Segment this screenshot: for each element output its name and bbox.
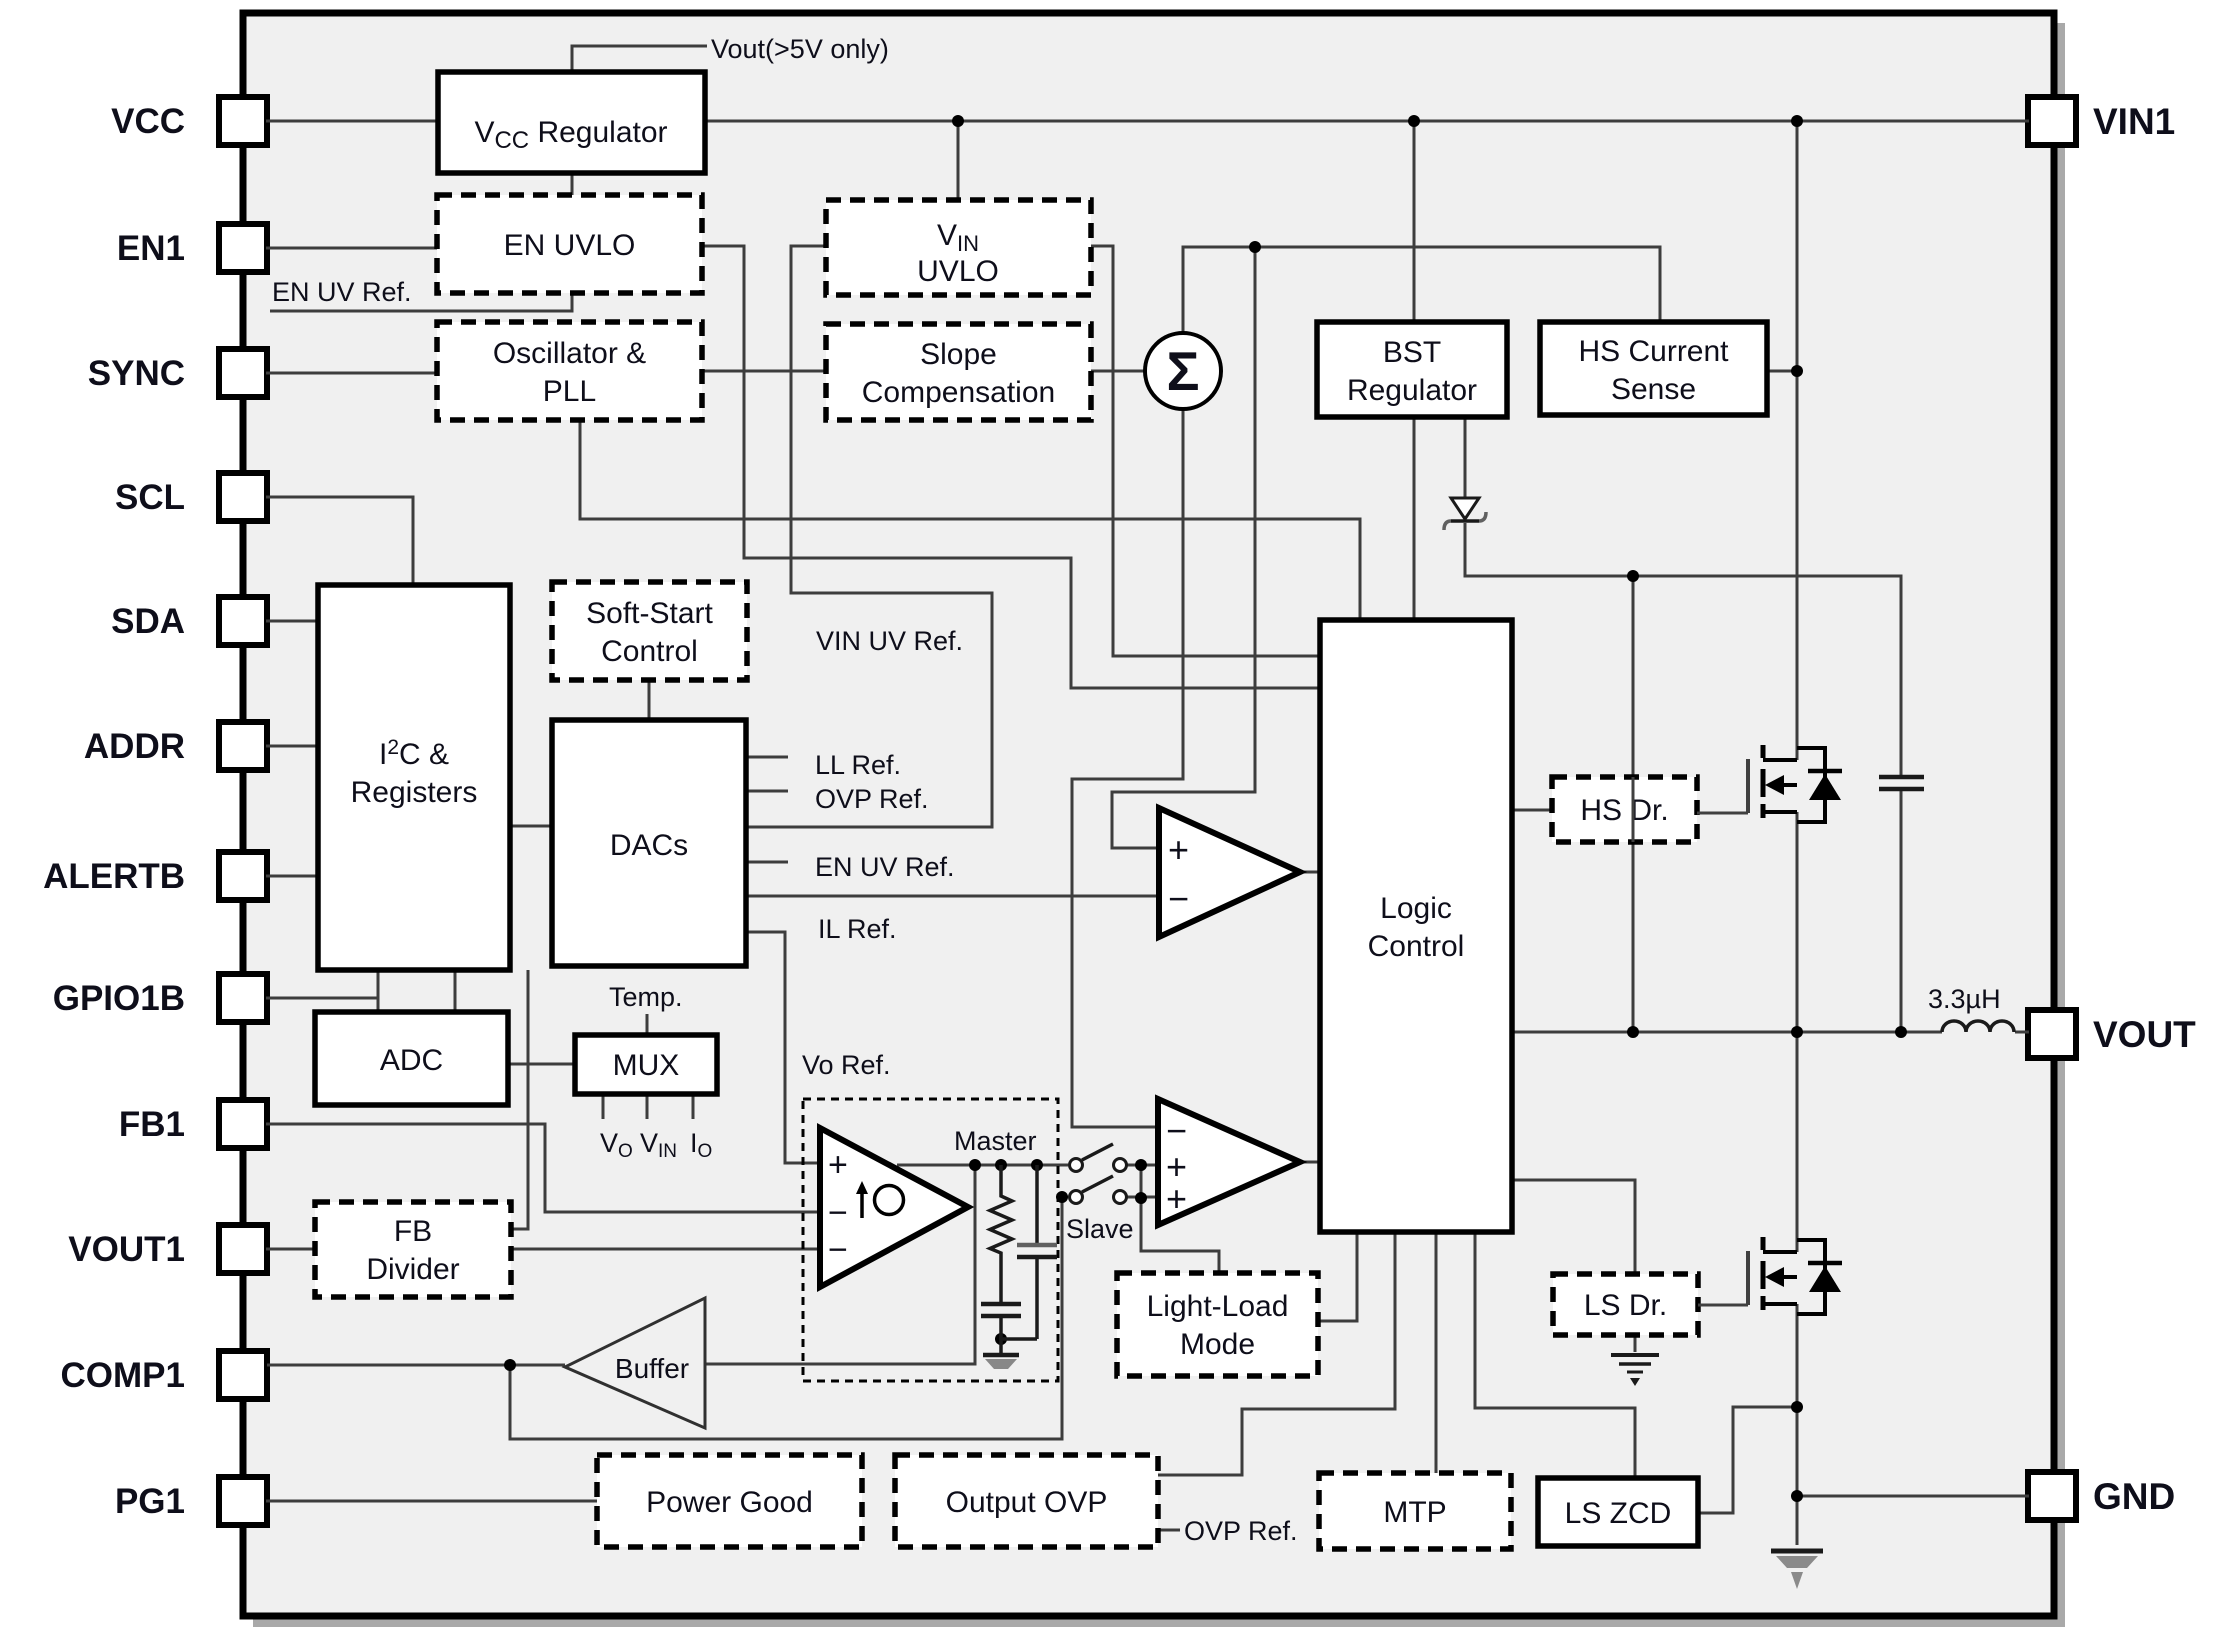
wire EN UVLO output to Logic Control bbox=[702, 246, 1320, 688]
stub EN UV Ref. bbox=[746, 861, 788, 864]
pin ALERTB bbox=[219, 852, 267, 900]
wire EN UV Ref. into EN UVLO bbox=[270, 293, 572, 311]
wire Logic to Light-Load Mode bbox=[1318, 1232, 1357, 1321]
ground for compensation network bbox=[999, 1339, 1003, 1353]
svg-text:Slope: Slope bbox=[920, 338, 997, 371]
svg-text:SDA: SDA bbox=[111, 602, 185, 641]
svg-text:Soft-Start: Soft-Start bbox=[586, 597, 713, 630]
svg-text:DACs: DACs bbox=[610, 829, 688, 862]
svg-text:VCC: VCC bbox=[111, 102, 185, 141]
pin VIN1 bbox=[2028, 97, 2076, 145]
pin PG1 bbox=[219, 1477, 267, 1525]
pin EN1 bbox=[219, 224, 267, 272]
error amplifier dotted group box bbox=[803, 1099, 1058, 1381]
block Soft-Start Control bbox=[552, 582, 747, 680]
wire Buffer output to master node bbox=[705, 1165, 975, 1364]
pin GND bbox=[2028, 1472, 2076, 1520]
wire switch node to VOUT inductor bbox=[1512, 1031, 1942, 1034]
svg-text:VIN1: VIN1 bbox=[2093, 101, 2175, 142]
wire LS gate bbox=[1698, 1304, 1748, 1307]
svg-text:Slave: Slave bbox=[1066, 1214, 1134, 1244]
capacitor C3 (bootstrap) bbox=[1879, 775, 1924, 780]
svg-text:+: + bbox=[828, 1146, 848, 1184]
stub LL Ref. bbox=[746, 756, 788, 759]
wire EN1 to EN UVLO bbox=[266, 247, 437, 250]
wire diode to bootstrap rail bbox=[1465, 523, 1901, 777]
wire switch tie to Light-Load Mode bbox=[1141, 1165, 1219, 1273]
MUX input stubs Vo VIN Io bbox=[602, 1094, 605, 1119]
svg-text:−: − bbox=[828, 1231, 848, 1269]
svg-text:PG1: PG1 bbox=[115, 1482, 185, 1521]
svg-text:IL Ref.: IL Ref. bbox=[818, 914, 897, 944]
wire PG1 to Power Good bbox=[266, 1500, 597, 1503]
buffer U4 bbox=[565, 1298, 705, 1428]
block Oscillator &amp; PLL bbox=[437, 322, 702, 420]
svg-text:Master: Master bbox=[954, 1126, 1037, 1156]
svg-text:Buffer: Buffer bbox=[615, 1353, 689, 1384]
svg-text:SYNC: SYNC bbox=[88, 354, 185, 393]
svg-text:Output OVP: Output OVP bbox=[946, 1486, 1108, 1519]
wire Slope Compensation to summing node bbox=[1091, 370, 1145, 373]
block DACs bbox=[552, 720, 746, 966]
svg-text:−: − bbox=[1168, 878, 1189, 919]
wire Vcc Regulator to EN UVLO bbox=[571, 173, 574, 195]
svg-text:EN UV Ref.: EN UV Ref. bbox=[272, 277, 412, 307]
wire HS FET source to LS FET drain bbox=[1796, 812, 1799, 1252]
wire IL Ref. to comparator minus bbox=[746, 895, 1159, 898]
wire comparator1 output to Logic bbox=[1300, 871, 1320, 874]
wire VIN UVLO output to Logic Control bbox=[1091, 246, 1320, 656]
wire through HS Driver box bbox=[1632, 777, 1635, 842]
svg-text:3.3µH: 3.3µH bbox=[1928, 984, 2001, 1014]
wire Oscillator to Slope Compensation bbox=[702, 370, 826, 373]
wire Vcc Regulator to VIN1 bbox=[705, 120, 2029, 123]
wire SYNC to Oscillator bbox=[266, 372, 437, 375]
svg-text:Control: Control bbox=[1368, 930, 1465, 963]
svg-text:MTP: MTP bbox=[1383, 1496, 1446, 1529]
wire HS Current Sense to switch line bbox=[1767, 370, 1797, 373]
wire ADDR to I2C bbox=[266, 745, 318, 748]
block MTP bbox=[1319, 1473, 1511, 1549]
wire SCL to I2C bbox=[266, 497, 413, 585]
svg-text:OVP Ref.: OVP Ref. bbox=[1184, 1516, 1298, 1546]
block VIN UVLO bbox=[826, 200, 1091, 295]
stub OVP Ref. bbox=[746, 790, 788, 793]
svg-text:ALERTB: ALERTB bbox=[43, 857, 185, 896]
svg-text:Logic: Logic bbox=[1380, 892, 1452, 925]
wire Logic to Output OVP bbox=[1158, 1232, 1395, 1475]
svg-text:Compensation: Compensation bbox=[862, 376, 1055, 409]
block HS Driver bbox=[1552, 777, 1697, 842]
block BST Regulator bbox=[1317, 322, 1507, 417]
wire HS Driver supply feed bbox=[1632, 576, 1635, 777]
svg-text:VOUT: VOUT bbox=[2093, 1014, 2196, 1055]
svg-text:Power Good: Power Good bbox=[646, 1486, 813, 1519]
wire LS FET source to ground bbox=[1796, 1304, 1799, 1545]
wire slave node bbox=[1062, 1196, 1068, 1199]
wire VIN1 rail to BST Regulator bbox=[1413, 121, 1416, 322]
svg-text:ADC: ADC bbox=[380, 1044, 443, 1077]
svg-text:GND: GND bbox=[2093, 1476, 2175, 1517]
wire VIN1 rail to HS FET drain bbox=[1796, 121, 1799, 760]
wire I2C to FB Divider bbox=[513, 970, 528, 1229]
wire COMP1 to Buffer and slave switch bbox=[267, 1364, 565, 1367]
wire Logic to LS ZCD bbox=[1475, 1232, 1635, 1478]
block Light-Load Mode bbox=[1117, 1273, 1318, 1376]
wire SDA to I2C bbox=[266, 620, 318, 623]
wire Vo Ref. to error amp plus bbox=[746, 932, 820, 1163]
svg-text:SCL: SCL bbox=[115, 478, 185, 517]
svg-text:+: + bbox=[1168, 829, 1189, 870]
capacitor C1 bbox=[981, 1302, 1021, 1307]
block ADC bbox=[315, 1012, 508, 1105]
pin GPIO1B bbox=[219, 974, 267, 1022]
svg-text:GPIO1B: GPIO1B bbox=[53, 979, 185, 1018]
wire ALERTB to I2C bbox=[266, 875, 318, 878]
wire FB Divider to error amp bbox=[511, 1248, 820, 1251]
svg-text:OVP Ref.: OVP Ref. bbox=[815, 784, 929, 814]
wire HS gate bbox=[1697, 812, 1748, 815]
svg-text:FB1: FB1 bbox=[119, 1105, 185, 1144]
stub OVP Ref. label bbox=[1158, 1529, 1180, 1532]
block Slope Compensation bbox=[826, 324, 1091, 420]
wire Oscillator to Logic Control bbox=[580, 420, 1360, 620]
comparator U2 (PWM) bbox=[1158, 1099, 1300, 1225]
wire VOUT1 to FB Divider bbox=[266, 1248, 315, 1251]
svg-text:UVLO: UVLO bbox=[917, 255, 999, 288]
svg-text:Σ: Σ bbox=[1166, 340, 1199, 402]
junction dots bbox=[952, 115, 964, 127]
svg-text:HS Current: HS Current bbox=[1578, 335, 1729, 368]
wire I2C to DACs bbox=[510, 825, 552, 828]
svg-text:Vo Ref.: Vo Ref. bbox=[802, 1050, 891, 1080]
svg-text:Oscillator &: Oscillator & bbox=[493, 337, 646, 370]
transistor Q1 high-side MOSFET bbox=[1746, 759, 1750, 813]
wire Logic to HS Driver bbox=[1512, 809, 1552, 812]
block EN UVLO bbox=[437, 195, 702, 293]
comparator U1 (current limit) bbox=[1159, 808, 1300, 937]
svg-text:EN UV Ref.: EN UV Ref. bbox=[815, 852, 955, 882]
block FB Divider bbox=[315, 1202, 511, 1297]
block Logic Control bbox=[1320, 620, 1512, 1232]
wire VIN UV Ref. from DACs to VIN UVLO bbox=[746, 246, 992, 827]
block I2C &amp; Registers bbox=[318, 585, 510, 970]
svg-text:Control: Control bbox=[601, 635, 698, 668]
block Vcc Regulator bbox=[438, 72, 705, 173]
wire master switch to comparator bbox=[1127, 1164, 1158, 1167]
svg-text:PLL: PLL bbox=[543, 375, 596, 408]
transistor Q2 low-side MOSFET bbox=[1746, 1251, 1750, 1305]
pin ADDR bbox=[219, 722, 267, 770]
diode D1 (bootstrap) bbox=[1451, 498, 1479, 519]
ground power bbox=[1771, 1549, 1823, 1554]
pin SDA bbox=[219, 597, 267, 645]
capacitor C2 bbox=[1035, 1165, 1039, 1245]
svg-text:Regulator: Regulator bbox=[1347, 374, 1477, 407]
svg-text:LL Ref.: LL Ref. bbox=[815, 750, 901, 780]
switch master bbox=[1070, 1159, 1083, 1172]
wire VIN1 rail to VIN UVLO bbox=[957, 121, 960, 200]
svg-text:VOUT1: VOUT1 bbox=[68, 1230, 185, 1269]
wire FB1 to error amp bbox=[266, 1124, 820, 1212]
svg-text:HS Dr.: HS Dr. bbox=[1580, 794, 1668, 827]
wire Logic to LS Driver bbox=[1512, 1180, 1635, 1274]
svg-text:Temp.: Temp. bbox=[609, 982, 683, 1012]
wire GND pin bbox=[1797, 1495, 2029, 1498]
wire node to PWM comparator plus input bbox=[1112, 247, 1255, 848]
pin VOUT bbox=[2028, 1010, 2076, 1058]
switch slave bbox=[1070, 1191, 1083, 1204]
svg-text:−: − bbox=[1166, 1110, 1187, 1151]
wire I2C to ADC stubs bbox=[377, 970, 380, 1012]
wire master line bbox=[897, 1164, 1068, 1167]
wire ADC to MUX bbox=[508, 1063, 575, 1066]
wire LS ZCD to switch node bbox=[1698, 1407, 1797, 1513]
block Output OVP bbox=[895, 1455, 1158, 1547]
wire summing node to HS Current Sense bbox=[1183, 247, 1660, 333]
svg-text:Vout(>5V only): Vout(>5V only) bbox=[711, 34, 889, 64]
block LS ZCD bbox=[1538, 1478, 1698, 1546]
wire Soft-Start to DACs bbox=[648, 680, 651, 720]
wire GPIO1B bbox=[266, 997, 378, 1000]
svg-text:EN1: EN1 bbox=[117, 229, 185, 268]
error amplifier U3 bbox=[820, 1128, 968, 1287]
svg-text:Mode: Mode bbox=[1180, 1328, 1255, 1361]
wire comparator2 output to Logic bbox=[1300, 1161, 1320, 1164]
wire slave switch to comparator bbox=[1127, 1196, 1158, 1199]
svg-text:−: − bbox=[828, 1194, 848, 1232]
svg-text:Divider: Divider bbox=[366, 1253, 459, 1286]
stub LS Driver ground bbox=[1634, 1335, 1637, 1352]
svg-text:+: + bbox=[1166, 1178, 1187, 1219]
wire bootstrap cap bottom bbox=[1900, 789, 1903, 1032]
pin FB1 bbox=[219, 1100, 267, 1148]
svg-text:ADDR: ADDR bbox=[84, 727, 185, 766]
svg-text:Light-Load: Light-Load bbox=[1147, 1290, 1289, 1323]
wire Vout(>5V only) tap bbox=[572, 46, 707, 72]
block HS Current Sense bbox=[1540, 322, 1767, 415]
stub Temp. to MUX bbox=[646, 1014, 649, 1035]
svg-text:VIN UV Ref.: VIN UV Ref. bbox=[816, 626, 963, 656]
wire BST Regulator to Logic Control bbox=[1413, 417, 1416, 620]
pin COMP1 bbox=[219, 1351, 267, 1399]
ground below LS Driver bbox=[1611, 1353, 1659, 1357]
svg-text:BST: BST bbox=[1383, 336, 1441, 369]
svg-text:EN UVLO: EN UVLO bbox=[504, 229, 636, 262]
svg-text:LS ZCD: LS ZCD bbox=[1565, 1497, 1672, 1530]
inductor L1 3.3uH bbox=[1942, 1021, 2014, 1032]
svg-text:LS Dr.: LS Dr. bbox=[1584, 1289, 1667, 1322]
svg-text:COMP1: COMP1 bbox=[61, 1356, 185, 1395]
pin SCL bbox=[219, 473, 267, 521]
svg-text:MUX: MUX bbox=[613, 1049, 680, 1082]
block Power Good bbox=[597, 1455, 862, 1547]
wire Logic to MTP bbox=[1435, 1232, 1438, 1473]
svg-text:Registers: Registers bbox=[351, 776, 478, 809]
current source inside error amp bbox=[860, 1190, 864, 1218]
svg-text:Sense: Sense bbox=[1611, 373, 1696, 406]
wire VCC to Vcc Regulator bbox=[266, 120, 438, 123]
pin SYNC bbox=[219, 349, 267, 397]
svg-text:FB: FB bbox=[394, 1215, 432, 1248]
block MUX bbox=[575, 1035, 717, 1094]
block LS Driver bbox=[1553, 1274, 1698, 1335]
pin VOUT1 bbox=[219, 1225, 267, 1273]
wire BST Regulator to diode bbox=[1464, 417, 1467, 497]
pin VCC bbox=[219, 97, 267, 145]
resistor R1 bbox=[990, 1165, 1012, 1304]
wire summing node lower input bbox=[1072, 409, 1183, 1127]
summing node sigma bbox=[1145, 333, 1221, 409]
